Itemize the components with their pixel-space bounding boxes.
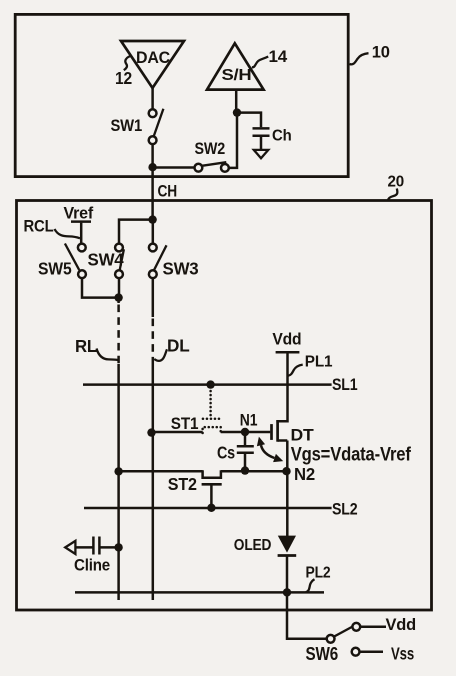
svg-text:14: 14 [269,48,289,66]
svg-text:10: 10 [372,44,390,62]
wire SW4 down [118,278,121,299]
wire node to SW2 [153,166,197,169]
svg-text:Vss: Vss [391,644,414,664]
svg-text:SW2: SW2 [195,139,226,158]
supply Vref [71,220,91,223]
svg-text:Cline: Cline [74,555,110,574]
svg-text:SW4: SW4 [88,250,124,270]
wire SL2 [84,507,332,510]
ground [254,150,268,158]
pixel block box 20 [17,201,432,611]
svg-text:20: 20 [388,174,405,191]
switch SW5 [78,244,86,252]
transistor ST2 [203,470,221,478]
wire DT drain down [286,441,289,537]
driver block box 10 [15,14,348,176]
wire RL dashed [117,296,120,303]
node in box10 [148,163,156,171]
svg-text:SL1: SL1 [332,375,358,394]
wire to Vss [360,650,383,653]
svg-text:OLED: OLED [234,537,271,554]
svg-text:Vref: Vref [64,205,94,223]
wire PL2 [75,591,324,594]
transistor DT [270,424,273,440]
wire SW2 to S/H node [228,113,237,168]
node N1 [241,428,249,436]
wire node to Ch [236,113,261,128]
wire SL1 [83,383,332,386]
wire DL solid [152,358,155,600]
wire DL dashed [152,319,155,359]
wire SW5 down to node [82,278,120,298]
label PL2 leader [306,579,315,592]
capacitor Cline [114,543,122,551]
svg-text:CH: CH [158,182,178,201]
svg-text:Ch: Ch [272,128,292,145]
svg-text:SW1: SW1 [111,116,143,135]
label 10 leader [350,53,369,64]
svg-text:Vdd: Vdd [272,330,301,349]
label DL leader [154,349,167,361]
switch SW2 [195,164,203,172]
wire SW1 to node [151,143,154,168]
wire to SW3 [152,221,155,244]
wire DL to ST1 [152,431,203,434]
node S/H output [233,108,241,116]
svg-text:N2: N2 [294,464,315,484]
op-amp S/H (14) [207,43,264,89]
label RL leader [97,349,118,361]
node ST2 gate [207,504,215,512]
arrow Vgs curved [261,445,275,458]
switch SW1 [149,109,157,117]
svg-text:Vgs=Vdata-Vref: Vgs=Vdata-Vref [291,444,412,466]
svg-text:SW5: SW5 [38,259,72,279]
wire node CH vertical [151,166,154,221]
wire DL top [152,278,155,317]
svg-text:N1: N1 [240,411,257,430]
transistor ST1 gate dotted [209,387,212,417]
svg-text:DL: DL [167,336,190,356]
svg-text:PL1: PL1 [305,354,333,371]
op-amp DAC (12) [121,41,184,88]
wire S/H output [235,90,238,114]
wire PL1 [276,353,287,421]
node RL top [114,293,122,301]
node N2 [282,467,290,475]
supply Vdd top [276,351,300,354]
switch SW3 [149,244,157,252]
svg-text:12: 12 [115,68,132,88]
wire RL solid [117,364,120,600]
label 14 leader [252,57,268,68]
node DL tap [147,428,155,436]
label 20 leader [388,189,398,201]
node PL2 [283,588,291,596]
svg-text:ST1: ST1 [171,414,199,433]
svg-text:ST2: ST2 [168,474,197,494]
capacitor Cs [244,431,247,445]
node RL tap [114,467,122,475]
svg-text:SW3: SW3 [163,259,199,279]
switch SW6 [327,635,335,643]
svg-text:SL2: SL2 [332,500,358,519]
label PL1 leader [288,365,303,376]
wire DAC to SW1 [151,88,154,110]
svg-text:RCL: RCL [24,217,54,236]
capacitor Ch [253,127,270,130]
node in box20 [148,215,156,223]
svg-text:SW6: SW6 [306,644,339,664]
wire to Vdd [360,626,386,629]
wire bottom row right [221,470,287,473]
wire branch to SW4 [119,220,154,244]
svg-text:S/H: S/H [222,67,252,84]
svg-text:Cs: Cs [217,443,235,463]
diode OLED [278,536,296,553]
wire ST1 to N1 to DT gate [221,431,271,434]
wire Vref down [80,223,83,244]
wire OLED down to SW6 [287,555,327,639]
svg-text:PL2: PL2 [306,565,331,582]
label 12 leader [124,56,131,70]
svg-text:DAC: DAC [136,49,170,67]
node Cs bottom [241,466,249,474]
svg-text:RL: RL [75,336,97,356]
svg-text:Vdd: Vdd [386,615,417,634]
svg-text:DT: DT [291,426,315,445]
switch SW4 [115,244,123,252]
node SL1 gate [206,380,214,388]
label RCL leader [55,229,81,238]
wire bottom row left [117,470,203,473]
